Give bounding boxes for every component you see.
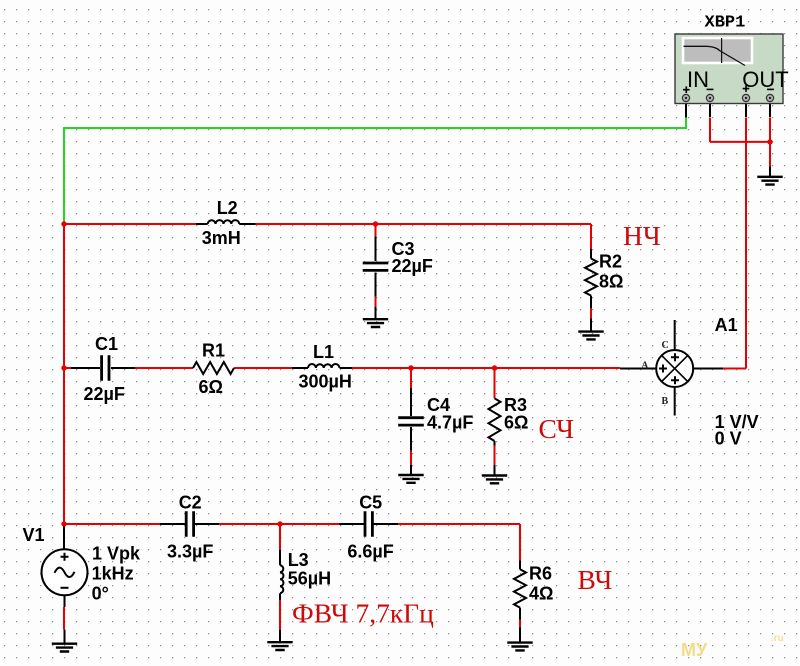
svg-text:L1: L1 bbox=[313, 342, 334, 362]
svg-text:V1: V1 bbox=[23, 525, 45, 545]
svg-text:НЧ: НЧ bbox=[623, 220, 661, 251]
svg-text:B: B bbox=[662, 396, 669, 407]
svg-text:3mH: 3mH bbox=[202, 228, 241, 248]
svg-text:СЧ: СЧ bbox=[539, 413, 575, 444]
svg-text:МУ: МУ bbox=[681, 640, 708, 660]
svg-text:6Ω: 6Ω bbox=[199, 377, 223, 397]
svg-text:IN: IN bbox=[687, 67, 709, 92]
svg-text:1 Vpk: 1 Vpk bbox=[92, 544, 141, 564]
svg-text:22µF: 22µF bbox=[392, 256, 433, 276]
svg-text:3.3µF: 3.3µF bbox=[167, 542, 213, 562]
svg-text:22µF: 22µF bbox=[84, 384, 125, 404]
svg-text:300µH: 300µH bbox=[299, 372, 352, 392]
svg-text:6.6µF: 6.6µF bbox=[347, 542, 393, 562]
svg-text:C5: C5 bbox=[359, 493, 382, 513]
svg-text:R6: R6 bbox=[529, 564, 552, 584]
svg-text:R1: R1 bbox=[202, 341, 225, 361]
svg-text:C2: C2 bbox=[179, 493, 202, 513]
svg-text:A: A bbox=[641, 360, 649, 371]
svg-text:L3: L3 bbox=[288, 550, 309, 570]
svg-text:1kHz: 1kHz bbox=[92, 564, 134, 584]
svg-text:XBP1: XBP1 bbox=[705, 14, 746, 33]
svg-text:0°: 0° bbox=[92, 584, 109, 604]
svg-text:56µH: 56µH bbox=[288, 569, 331, 589]
svg-text:4Ω: 4Ω bbox=[529, 584, 553, 604]
svg-text:6Ω: 6Ω bbox=[504, 413, 528, 433]
svg-text:ФВЧ 7,7кГц: ФВЧ 7,7кГц bbox=[292, 598, 434, 629]
svg-text:0 V: 0 V bbox=[715, 429, 742, 449]
svg-text:C: C bbox=[662, 340, 669, 351]
svg-text:L2: L2 bbox=[217, 198, 238, 218]
svg-text:4.7µF: 4.7µF bbox=[427, 413, 473, 433]
svg-text:OUT: OUT bbox=[742, 67, 788, 92]
svg-text:ВЧ: ВЧ bbox=[578, 564, 613, 595]
svg-text:A1: A1 bbox=[715, 315, 738, 335]
svg-text:8Ω: 8Ω bbox=[599, 272, 623, 292]
svg-text:R2: R2 bbox=[599, 252, 622, 272]
svg-text:C1: C1 bbox=[95, 334, 118, 354]
svg-text:.ru: .ru bbox=[771, 633, 784, 644]
